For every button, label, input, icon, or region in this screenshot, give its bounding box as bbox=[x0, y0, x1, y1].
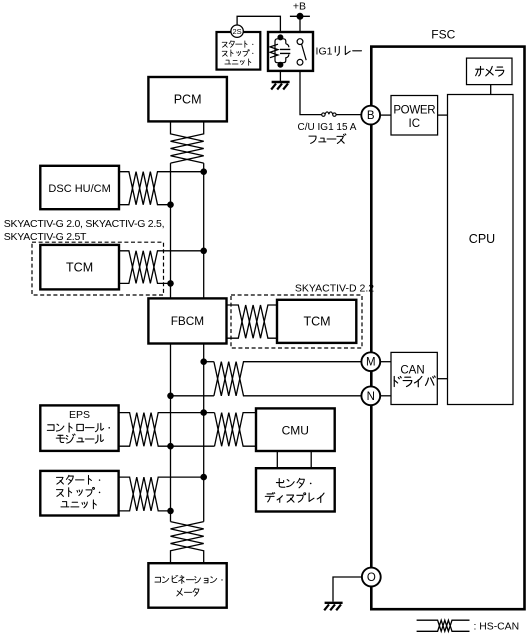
connector circle N bbox=[361, 386, 380, 405]
box DSC HU/CM bbox=[40, 166, 119, 209]
box start-stop unit (top) bbox=[217, 32, 261, 70]
label DSC HU/CM bbox=[48, 183, 110, 195]
box PCM bbox=[148, 77, 227, 121]
junction dot M wire on right bus wire bbox=[200, 358, 207, 365]
label CMU bbox=[282, 423, 309, 437]
svg-text:CPU: CPU bbox=[469, 232, 495, 246]
box EPS control module bbox=[40, 405, 118, 451]
svg-text:CAN: CAN bbox=[400, 364, 424, 376]
svg-text:SKYACTIV-G 2.5T: SKYACTIV-G 2.5T bbox=[4, 231, 87, 243]
label combination meter bbox=[155, 575, 223, 596]
junction dot SSU CAN-H on right bus wire bbox=[200, 474, 207, 481]
legend twisted pair symbol bbox=[417, 620, 470, 631]
junction dot relay coil bottom bbox=[277, 62, 283, 68]
svg-text:: HS-CAN: : HS-CAN bbox=[474, 621, 520, 632]
wire relay switch to fuse to connector B bbox=[300, 62, 361, 114]
label TCM (SKYACTIV-G) bbox=[66, 260, 93, 274]
wire connector M to CAN driver bbox=[380, 361, 391, 363]
label CAN driver bbox=[394, 364, 435, 386]
twisted pair start-stop unit to bus bbox=[119, 477, 204, 511]
ground (FSC) bbox=[324, 603, 342, 611]
box TCM (SKYACTIV-D) bbox=[277, 300, 356, 343]
dashed box TCM SKYACTIV-D bbox=[231, 295, 362, 348]
svg-text:CMU: CMU bbox=[282, 423, 309, 437]
CAN bus right wire (vertical) bbox=[203, 163, 205, 521]
box CMU bbox=[256, 408, 335, 451]
svg-text:2S: 2S bbox=[233, 27, 242, 36]
label center display bbox=[265, 478, 324, 502]
+B supply label bbox=[293, 1, 306, 13]
svg-text:POWER: POWER bbox=[393, 104, 435, 116]
connector circle M bbox=[361, 352, 380, 371]
junction dot EPS/CMU CAN-L on left bus wire bbox=[167, 443, 174, 450]
svg-text:SKYACTIV-G 2.0, SKYACTIV-G 2.5: SKYACTIV-G 2.0, SKYACTIV-G 2.5, bbox=[4, 218, 165, 230]
box TCM (SKYACTIV-G) bbox=[40, 245, 119, 290]
junction dot TCM-G CAN-H on right bus wire bbox=[200, 248, 207, 255]
label SKYACTIV-G variants bbox=[4, 218, 165, 243]
svg-text:IG1: IG1 bbox=[316, 46, 333, 58]
svg-text:FBCM: FBCM bbox=[171, 314, 204, 328]
box CPU bbox=[448, 95, 514, 405]
twisted pair EPS control module to bus bbox=[119, 413, 215, 447]
svg-text:TCM: TCM bbox=[303, 315, 330, 329]
wires CMU to center display bbox=[277, 451, 311, 468]
box POWER IC bbox=[391, 96, 438, 136]
svg-text:N: N bbox=[367, 391, 375, 403]
svg-text:M: M bbox=[366, 357, 376, 369]
fuse C/U IG1 15 A bbox=[322, 112, 336, 116]
label PCM bbox=[174, 93, 202, 107]
legend label HS-CAN bbox=[474, 621, 520, 632]
svg-text:B: B bbox=[367, 110, 375, 122]
wire relay coil to ground bbox=[279, 65, 281, 81]
FSC label bbox=[431, 27, 455, 41]
svg-text:C/U IG1 15 A: C/U IG1 15 A bbox=[298, 122, 357, 133]
label SKYACTIV-D 2.2 bbox=[295, 282, 374, 294]
svg-text:+B: +B bbox=[293, 1, 306, 13]
junction dot DSC CAN-H on right bus wire bbox=[200, 168, 207, 175]
wire connector O to ground bbox=[333, 577, 362, 602]
connector circle B bbox=[361, 106, 380, 125]
svg-text:O: O bbox=[367, 572, 376, 584]
wire connector B to POWER IC bbox=[380, 114, 391, 116]
ground (relay coil) bbox=[271, 82, 289, 90]
box center display bbox=[256, 468, 335, 511]
connector circle O bbox=[362, 568, 381, 587]
twisted pair FBCM to TCM (SKYACTIV-D) bbox=[227, 305, 278, 338]
twisted pair PCM to bus (vertical) bbox=[171, 121, 204, 163]
label IG1 relay bbox=[316, 46, 362, 58]
label CPU bbox=[469, 232, 495, 246]
label camera bbox=[476, 66, 504, 76]
label start-stop unit (top) bbox=[222, 41, 253, 66]
+B supply bar bbox=[290, 15, 310, 17]
junction dot TCM-G CAN-L on left bus wire bbox=[167, 280, 174, 287]
svg-text:TCM: TCM bbox=[66, 260, 93, 274]
twisted pair bus to CMU bbox=[215, 413, 257, 447]
junction dot relay coil top bbox=[277, 34, 283, 40]
box CAN driver bbox=[391, 352, 437, 404]
twisted pair bus to connectors M and N bbox=[171, 362, 362, 396]
label TCM (SKYACTIV-D) bbox=[303, 315, 330, 329]
svg-text:DSC HU/CM: DSC HU/CM bbox=[48, 183, 110, 195]
wire connector N to CAN driver bbox=[380, 395, 391, 397]
junction dot DSC CAN-L on left bus wire bbox=[167, 201, 174, 208]
connector circle 2S bbox=[231, 25, 243, 37]
box start-stop unit (left) bbox=[40, 471, 118, 516]
twisted pair TCM (SKYACTIV-G) to bus bbox=[119, 251, 204, 284]
svg-text:EPS: EPS bbox=[69, 409, 90, 421]
twisted pair bus to combination meter (vertical) bbox=[171, 522, 204, 564]
label EPS control module bbox=[47, 409, 110, 443]
relay box IG1 bbox=[268, 32, 313, 71]
wire CAN driver to CPU bbox=[437, 378, 447, 380]
junction dot EPS/CMU CAN-H on right bus wire bbox=[200, 409, 207, 416]
box FBCM bbox=[148, 298, 226, 343]
CAN bus left wire (vertical) bbox=[170, 163, 172, 521]
junction dot +B bbox=[297, 13, 304, 20]
svg-text:FSC: FSC bbox=[431, 27, 455, 41]
relay switch bbox=[297, 39, 306, 66]
twisted pair DSC HU/CM to bus bbox=[119, 172, 204, 205]
relay coil bbox=[270, 39, 290, 63]
box camera bbox=[467, 58, 513, 85]
label C/U IG1 15 A fuse bbox=[298, 122, 357, 133]
junction dot SSU CAN-L on left bus wire bbox=[167, 508, 174, 515]
wire start-stop unit 2S to relay coil bbox=[237, 16, 280, 37]
svg-text:IC: IC bbox=[409, 118, 421, 130]
FSC module outline bbox=[371, 47, 524, 610]
dashed box TCM SKYACTIV-G bbox=[32, 242, 164, 295]
wire camera to CPU bbox=[490, 85, 492, 95]
wire +B to relay switch bbox=[299, 16, 301, 39]
wire POWER IC to CPU bbox=[438, 114, 448, 116]
label FBCM bbox=[171, 314, 204, 328]
svg-text:PCM: PCM bbox=[174, 93, 202, 107]
svg-text:SKYACTIV-D 2.2: SKYACTIV-D 2.2 bbox=[295, 282, 374, 294]
label start-stop unit (left) bbox=[56, 475, 100, 509]
label POWER IC bbox=[393, 104, 435, 130]
box combination meter bbox=[148, 563, 226, 608]
junction dot N wire on left bus wire bbox=[167, 393, 174, 400]
